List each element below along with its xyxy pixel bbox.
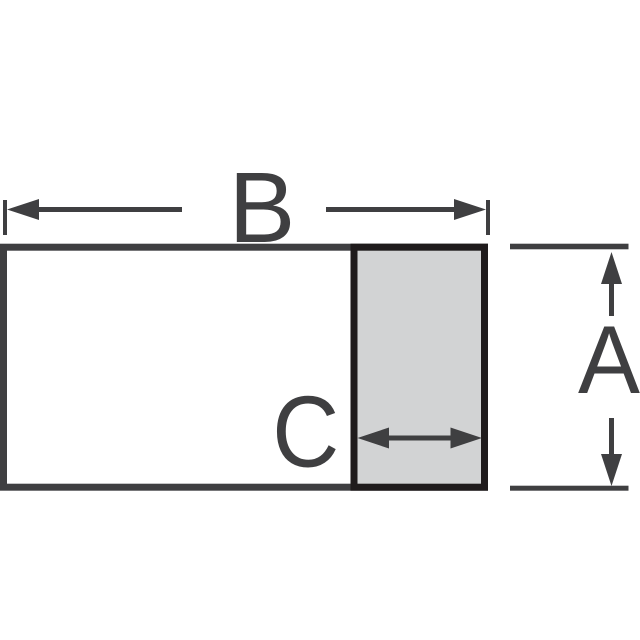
dimension C double arrow — [358, 428, 390, 449]
dimension A bottom extension line — [510, 486, 629, 491]
component body outline — [4, 247, 485, 487]
svg-text:C: C — [272, 375, 339, 489]
svg-text:A: A — [578, 307, 640, 414]
dimension A up arrow — [601, 252, 622, 284]
dimension A top extension line — [510, 244, 629, 250]
dimension B right tick — [486, 200, 490, 235]
dimension B left tick — [3, 200, 7, 235]
svg-text:B: B — [229, 152, 296, 264]
dimension A down arrow — [609, 418, 614, 456]
terminal (gray end cap) — [354, 247, 485, 487]
dimension B left arrow — [7, 199, 39, 220]
dimension B right arrow — [454, 199, 486, 220]
